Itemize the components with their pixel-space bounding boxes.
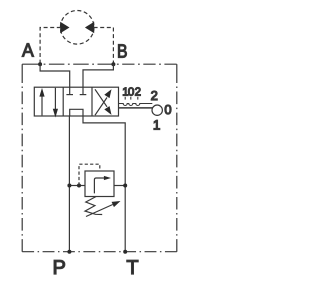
wire P line [68,116,70,252]
svg-text:0: 0 [164,102,171,117]
motor triangle left [60,22,69,34]
svg-text:0: 0 [128,86,134,98]
node dot pilot tap [77,184,81,188]
relief valve RV1 body [85,171,114,197]
valve position 2: cross arrow down [95,89,107,107]
svg-text:B: B [117,42,128,63]
wire motor to A (dashed) [40,28,61,65]
node dot P-relief [67,184,71,188]
node B dot [111,62,115,66]
detent rail lower [119,107,153,109]
valve position 1: up arrow [41,96,43,116]
enclosure boundary (dash-dot rectangle) [22,64,177,252]
valve position 0: bottom bridge [70,109,83,116]
wire P line to relief valve [69,185,85,187]
valve position 0: blocked port right [80,87,87,94]
valve position 2: cross arrow up [95,98,107,116]
node dot T-relief [123,184,127,188]
svg-text:2: 2 [151,88,158,103]
valve V1 body [34,87,118,116]
detent ball [152,105,162,115]
svg-text:T: T [126,257,138,279]
valve position 0: blocked port left [66,87,73,94]
detent position ticks [124,97,126,100]
relief valve internal arrow [94,178,104,193]
svg-text:P: P [53,257,66,279]
motor M1 (dashed circle) [60,11,94,45]
relief valve spring [85,197,102,215]
node T dot [123,250,127,254]
valve position 1: down arrow [54,88,56,110]
detent notched plate [119,104,153,106]
wire A to valve port [40,64,70,87]
svg-text:A: A [22,41,34,62]
node A dot [38,62,42,66]
wire B to valve port [83,64,113,87]
wire relief valve to T line [114,185,125,187]
svg-text:2: 2 [135,86,141,98]
spring adjust arrow [86,205,113,217]
pilot line (dashed) [79,164,100,185]
wire motor to B (dashed) [94,28,114,65]
node P dot [67,250,71,254]
wire valve T port to T line [83,116,125,252]
motor triangle right [85,22,94,34]
svg-text:1: 1 [153,118,161,133]
